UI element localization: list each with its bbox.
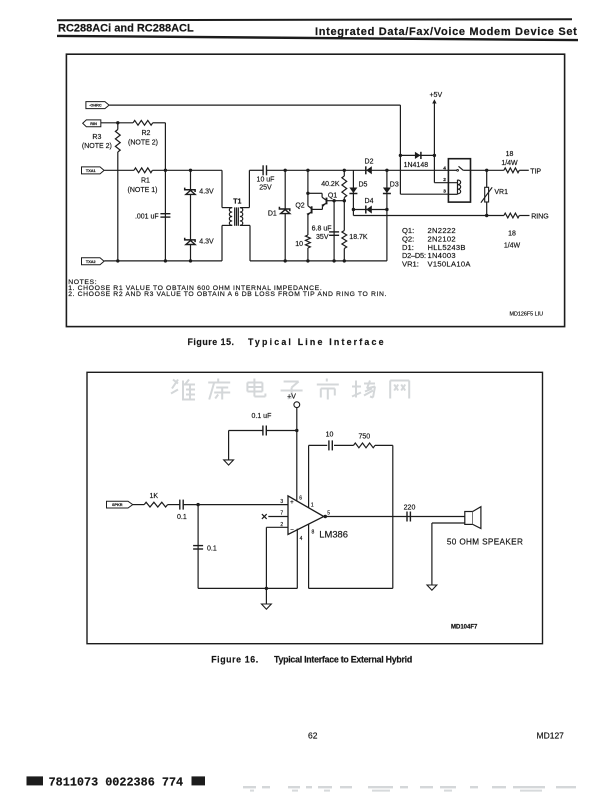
svg-text:50 OHM SPEAKER: 50 OHM SPEAKER xyxy=(447,537,523,546)
svg-text:3: 3 xyxy=(443,189,446,195)
wire Q1 base node xyxy=(334,200,344,202)
diode 1N4148 xyxy=(400,154,434,156)
svg-text:R3: R3 xyxy=(92,134,101,141)
figure 16 border box xyxy=(87,372,543,643)
svg-text:4.3V: 4.3V xyxy=(199,239,214,246)
wire RIN node xyxy=(101,122,133,124)
svg-text:Q1: Q1 xyxy=(328,192,337,199)
node TXA1 tag xyxy=(82,167,105,174)
relay K1 box xyxy=(448,159,470,202)
bottom watermark remnant xyxy=(243,786,256,788)
resistor 750 (feedback) xyxy=(334,444,354,446)
svg-text:(NOTE 1): (NOTE 1) xyxy=(128,187,158,194)
svg-text:RIN: RIN xyxy=(90,122,97,126)
svg-text:RC288ACi and RC288ACL: RC288ACi and RC288ACL xyxy=(58,23,194,35)
ground (speaker) xyxy=(427,585,437,590)
header bottom rule xyxy=(57,36,578,40)
svg-text:1: 1 xyxy=(311,502,314,508)
zener 4.3V lower xyxy=(185,238,195,242)
pin 1 xyxy=(308,445,310,507)
wire +V rail xyxy=(296,408,298,501)
svg-text:+5V: +5V xyxy=(429,92,442,99)
barcode line xyxy=(27,776,44,785)
wire bottom rail (right of transformer) xyxy=(250,260,387,262)
svg-text:18: 18 xyxy=(508,230,516,237)
svg-text:TXA1: TXA1 xyxy=(86,169,96,173)
svg-text:0.1: 0.1 xyxy=(207,545,217,552)
svg-text:Typical Interface to External: Typical Interface to External Hybrid xyxy=(274,654,412,664)
resistor 40.2K xyxy=(343,170,345,176)
resistor R3 xyxy=(117,123,119,130)
svg-text:10: 10 xyxy=(295,241,303,248)
diode D5 xyxy=(352,170,354,209)
svg-text:4.3V: 4.3V xyxy=(199,188,214,195)
transistor Q1 xyxy=(308,192,322,194)
wire top line right of transformer xyxy=(249,169,263,171)
svg-text:D2: D2 xyxy=(365,159,374,166)
svg-text:6: 6 xyxy=(299,496,302,502)
zener D1 xyxy=(284,170,286,261)
wire TIP line xyxy=(471,169,504,171)
resistor 10 (emitter) xyxy=(307,215,309,235)
svg-text:3: 3 xyxy=(280,499,283,505)
svg-text:D1: D1 xyxy=(268,211,277,218)
pin 4 xyxy=(296,529,298,589)
pin 2 xyxy=(266,526,288,528)
wire speaker return xyxy=(432,522,465,524)
svg-text:7: 7 xyxy=(280,511,283,517)
watermark xyxy=(171,380,195,400)
wire TXA1 line xyxy=(104,169,134,171)
ground (decoupling) xyxy=(228,431,230,462)
svg-text:(NOTE 2): (NOTE 2) xyxy=(82,143,112,150)
svg-text:1/4W: 1/4W xyxy=(501,160,518,167)
relay coil xyxy=(457,180,459,195)
svg-text:18.7K: 18.7K xyxy=(349,234,368,241)
svg-text:Typical Line Interface: Typical Line Interface xyxy=(248,337,386,347)
wire RING feed xyxy=(352,210,354,216)
wire right vertical rail (R2/R1/cap) xyxy=(164,123,166,261)
svg-text:MD104F7: MD104F7 xyxy=(451,625,478,631)
relay switch contact xyxy=(448,169,456,171)
svg-text:(NOTE 2): (NOTE 2) xyxy=(128,140,158,147)
svg-text:TIP: TIP xyxy=(530,168,541,175)
pin 7 xyxy=(268,516,288,518)
svg-text:Figure 15.: Figure 15. xyxy=(188,337,235,347)
node SPKR tag xyxy=(107,501,133,508)
svg-text:40.2K: 40.2K xyxy=(321,181,340,188)
zener 4.3V upper xyxy=(190,170,192,261)
pin 8 xyxy=(308,524,310,588)
capacitor 10 (feedback) xyxy=(309,444,328,446)
svg-text:62: 62 xyxy=(308,730,318,740)
svg-text:0.1 uF: 0.1 uF xyxy=(252,413,272,420)
transformer T1 xyxy=(221,170,223,207)
wire bottom rail riser xyxy=(386,210,388,261)
svg-text:4: 4 xyxy=(443,165,446,171)
diode D4 xyxy=(353,209,387,211)
diode D2 xyxy=(365,166,367,174)
svg-text:D5: D5 xyxy=(359,182,368,189)
capacitor 220 (output) xyxy=(406,512,408,522)
svg-text:D4: D4 xyxy=(365,198,374,205)
svg-text:SPKR: SPKR xyxy=(112,503,123,507)
wire TXA2 bottom rail (left) xyxy=(104,260,222,262)
svg-text:2: 2 xyxy=(443,177,446,183)
resistor R1 xyxy=(134,168,152,173)
svg-text:220: 220 xyxy=(404,505,416,512)
svg-text:1N4148: 1N4148 xyxy=(404,162,429,169)
varistor VR1 xyxy=(486,170,488,187)
svg-text:T1: T1 xyxy=(233,198,241,205)
resistor 18 1/4W (RING) xyxy=(504,213,519,218)
svg-text:MD126F5 LIU: MD126F5 LIU xyxy=(510,312,544,318)
resistor R2 xyxy=(133,120,153,125)
svg-text:+: + xyxy=(290,499,294,506)
wire -OHRC to relay driver xyxy=(109,104,400,106)
node -OHRC tag xyxy=(86,102,109,109)
svg-text:5: 5 xyxy=(327,510,330,516)
svg-text:35V: 35V xyxy=(316,234,329,241)
capacitor .001 uF xyxy=(160,213,170,215)
svg-text:LM386: LM386 xyxy=(319,528,348,539)
node RIN tag xyxy=(83,120,101,127)
pin 7 X mark xyxy=(262,514,267,519)
figure 15 border box xyxy=(66,54,564,326)
svg-text:D3: D3 xyxy=(390,182,399,189)
svg-text:+V: +V xyxy=(287,393,296,400)
svg-text:MD127: MD127 xyxy=(537,730,565,740)
svg-text:4: 4 xyxy=(300,536,303,542)
svg-text:TXA2: TXA2 xyxy=(86,260,96,264)
svg-text:6.8 uF: 6.8 uF xyxy=(312,225,332,232)
svg-text:R1: R1 xyxy=(141,177,150,184)
svg-text:Q2: Q2 xyxy=(295,202,304,209)
svg-text:V150LA10A: V150LA10A xyxy=(428,260,472,269)
svg-text:18: 18 xyxy=(506,151,514,158)
svg-text:Figure 16.: Figure 16. xyxy=(211,654,259,664)
diode D3 xyxy=(386,170,388,209)
capacitor 0.1 uF decoupling xyxy=(266,430,297,432)
svg-text:2: 2 xyxy=(280,522,283,528)
svg-text:0.1: 0.1 xyxy=(177,514,187,521)
svg-text:RING: RING xyxy=(531,214,549,221)
svg-text:25V: 25V xyxy=(259,185,272,192)
svg-text:750: 750 xyxy=(358,434,370,441)
wire feedback loop xyxy=(392,445,394,588)
speaker xyxy=(465,512,473,525)
op-amp U1 LM386 xyxy=(288,496,324,535)
wire input ground rail xyxy=(198,587,297,589)
capacitor 10 uF 25V xyxy=(262,165,264,175)
svg-text:7811073 0022386 774: 7811073 0022386 774 xyxy=(49,775,184,789)
header top rule xyxy=(57,19,572,20)
resistor 18 1/4W (TIP) xyxy=(504,168,519,173)
svg-text:VR1:: VR1: xyxy=(402,260,419,269)
svg-text:.001 uF: .001 uF xyxy=(135,213,159,220)
svg-text:10: 10 xyxy=(326,432,334,439)
svg-text:1K: 1K xyxy=(150,493,159,500)
svg-text:R2: R2 xyxy=(142,130,151,137)
svg-text:8: 8 xyxy=(312,529,315,535)
transistor Q2 xyxy=(308,206,311,209)
svg-text:Integrated Data/Fax/Voice Mode: Integrated Data/Fax/Voice Modem Device S… xyxy=(315,26,578,38)
capacitor 0.1 shunt xyxy=(197,505,199,589)
capacitor 6.8 uF 35V xyxy=(333,201,335,261)
svg-text:2. CHOOSE R2 AND R3 VALUE TO O: 2. CHOOSE R2 AND R3 VALUE TO OBTAIN A 6 … xyxy=(68,291,387,298)
node TXA2 tag xyxy=(82,258,105,265)
resistor 18.7K xyxy=(343,201,345,231)
svg-text:−: − xyxy=(290,526,294,533)
svg-text:10 uF: 10 uF xyxy=(257,176,275,183)
capacitor 0.1 series xyxy=(168,504,180,506)
svg-text:1/4W: 1/4W xyxy=(504,243,521,250)
resistor 1K xyxy=(133,504,144,506)
svg-text:VR1: VR1 xyxy=(494,189,508,196)
ground (input) xyxy=(265,588,267,606)
wire Q collector rail xyxy=(307,170,309,206)
svg-text:-OHRC: -OHRC xyxy=(89,104,102,108)
